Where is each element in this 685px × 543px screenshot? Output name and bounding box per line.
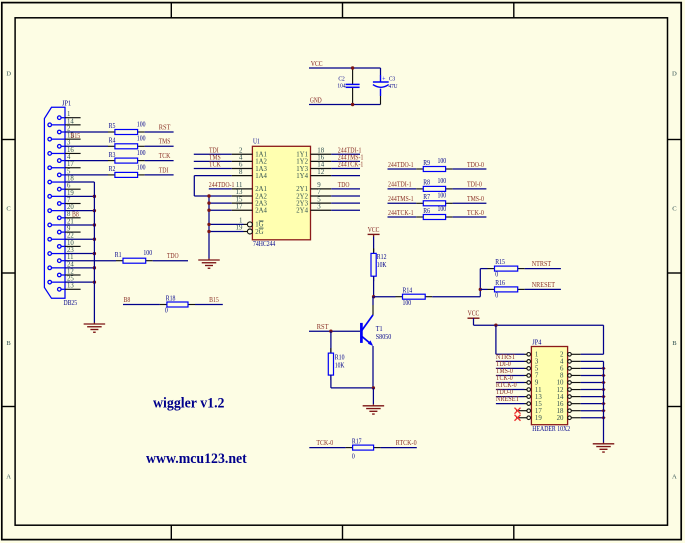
svg-text:7: 7 [535,373,539,380]
svg-text:1A4: 1A4 [255,173,267,180]
svg-text:B15: B15 [71,132,81,140]
svg-text:11: 11 [236,182,243,189]
svg-text:12: 12 [557,387,564,394]
svg-text:100: 100 [438,157,447,165]
svg-text:R9: R9 [423,159,430,167]
svg-text:TDO: TDO [338,181,350,189]
svg-text:244TMS-1: 244TMS-1 [388,195,414,203]
svg-text:8: 8 [560,373,564,380]
svg-text:2A4: 2A4 [255,208,267,215]
svg-text:22: 22 [67,233,74,240]
svg-text:2A1: 2A1 [255,186,267,193]
svg-text:C3: C3 [389,75,396,82]
svg-text:244TDI-1: 244TDI-1 [388,181,412,189]
svg-text:1: 1 [67,111,70,118]
svg-text:100: 100 [438,205,447,213]
svg-text:VCC: VCC [368,226,380,234]
svg-text:4: 4 [67,154,71,161]
svg-text:+: + [382,74,385,83]
svg-text:14: 14 [317,162,324,169]
svg-text:15: 15 [236,196,243,203]
svg-text:4: 4 [239,155,243,162]
svg-text:JP4: JP4 [532,338,542,346]
svg-text:B8: B8 [124,296,131,304]
svg-text:10: 10 [557,380,564,387]
svg-text:9: 9 [535,380,539,387]
svg-text:1: 1 [535,352,539,359]
svg-text:TDI-0: TDI-0 [467,181,482,189]
svg-text:100: 100 [137,149,146,157]
svg-text:244TCK-1: 244TCK-1 [338,161,364,169]
svg-text:10K: 10K [377,261,387,269]
svg-text:100: 100 [438,192,447,200]
svg-text:2Y3: 2Y3 [296,200,308,207]
svg-text:1Y4: 1Y4 [296,173,308,180]
svg-text:TCK: TCK [209,161,221,169]
svg-text:5: 5 [535,366,539,373]
svg-text:RST: RST [159,123,171,131]
svg-text:5: 5 [317,196,321,203]
svg-text:12: 12 [67,268,74,275]
svg-text:244TCK-1: 244TCK-1 [388,209,414,217]
svg-text:R14: R14 [403,287,413,295]
svg-text:2A2: 2A2 [255,193,267,200]
svg-text:11: 11 [67,254,74,261]
svg-text:24: 24 [67,261,74,268]
svg-text:16: 16 [67,147,74,154]
svg-text:100: 100 [137,163,146,171]
svg-text:14: 14 [67,118,74,125]
svg-text:13: 13 [535,394,542,401]
svg-text:3: 3 [67,140,71,147]
svg-text:7: 7 [317,189,321,196]
svg-text:2Y2: 2Y2 [296,193,308,200]
svg-text:B15: B15 [209,296,219,304]
svg-text:HEADER 10X2: HEADER 10X2 [532,425,570,433]
svg-text:A: A [6,473,11,480]
svg-text:4: 4 [560,359,564,366]
svg-text:100: 100 [143,249,152,257]
svg-text:1Y2: 1Y2 [296,159,308,166]
svg-text:0: 0 [495,271,498,279]
svg-text:DB25: DB25 [64,299,78,307]
svg-text:18: 18 [317,148,324,155]
svg-text:TMS-0: TMS-0 [467,195,484,203]
svg-text:19: 19 [535,415,542,422]
svg-text:1G: 1G [255,222,263,229]
svg-text:2Y1: 2Y1 [296,186,308,193]
svg-text:8: 8 [67,211,71,218]
svg-text:C2: C2 [338,75,344,82]
svg-text:A: A [672,473,677,480]
svg-text:VCC: VCC [311,60,323,68]
svg-text:15: 15 [535,401,542,408]
svg-text:6: 6 [67,183,71,190]
svg-text:244TDO-1: 244TDO-1 [388,161,414,169]
svg-text:104: 104 [337,83,346,90]
svg-text:1Y1: 1Y1 [296,152,308,159]
svg-text:TCK-0: TCK-0 [316,439,333,447]
svg-text:18: 18 [67,175,74,182]
svg-text:VCC: VCC [468,310,480,318]
svg-text:12: 12 [317,169,324,176]
svg-text:10: 10 [67,240,74,247]
svg-text:8: 8 [239,169,243,176]
svg-text:100: 100 [403,299,412,307]
svg-text:TDO-0: TDO-0 [467,161,484,169]
svg-text:B: B [672,340,677,347]
svg-text:3: 3 [317,203,321,210]
svg-text:TCK-0: TCK-0 [467,209,484,217]
svg-text:NRESET: NRESET [496,395,520,403]
svg-text:244TDO-1: 244TDO-1 [209,181,235,189]
svg-text:B8: B8 [72,210,79,218]
svg-text:1A2: 1A2 [255,159,267,166]
svg-text:R16: R16 [495,279,505,287]
svg-text:16: 16 [317,155,324,162]
svg-text:JP1: JP1 [62,99,72,107]
svg-text:20: 20 [557,415,564,422]
svg-text:R4: R4 [109,137,116,145]
svg-text:NRESET: NRESET [532,281,556,289]
svg-text:C: C [6,206,11,213]
svg-text:9: 9 [67,226,71,233]
svg-text:9: 9 [317,182,321,189]
svg-text:1A3: 1A3 [255,166,267,173]
svg-text:13: 13 [67,283,74,290]
svg-text:R3: R3 [109,151,116,159]
svg-text:B: B [6,340,11,347]
svg-text:R15: R15 [495,258,505,266]
svg-text:RTCK-0: RTCK-0 [396,439,417,447]
svg-text:R8: R8 [423,179,430,187]
svg-text:47U: 47U [389,83,398,90]
svg-text:100: 100 [137,135,146,143]
svg-text:17: 17 [67,161,74,168]
svg-text:10K: 10K [335,361,345,369]
svg-text:13: 13 [236,189,243,196]
svg-text:GND: GND [310,97,322,105]
svg-text:TDO: TDO [167,252,179,260]
svg-text:R2: R2 [109,165,116,173]
svg-text:18: 18 [557,408,564,415]
svg-text:11: 11 [535,387,542,394]
svg-text:2G: 2G [255,229,263,236]
svg-text:C: C [672,206,677,213]
svg-text:19: 19 [236,225,243,232]
svg-text:www.mcu123.net: www.mcu123.net [146,451,247,467]
svg-text:2Y4: 2Y4 [296,208,308,215]
svg-text:1: 1 [239,218,243,225]
svg-text:6: 6 [560,366,564,373]
svg-text:R1: R1 [115,251,122,259]
svg-text:D: D [672,70,677,77]
svg-text:D: D [6,70,11,77]
svg-text:23: 23 [67,247,74,254]
svg-text:25: 25 [67,276,74,283]
svg-text:100: 100 [438,177,447,185]
svg-text:0: 0 [495,291,498,299]
svg-text:R17: R17 [352,437,362,445]
svg-text:R5: R5 [109,122,116,130]
svg-text:5: 5 [67,168,71,175]
svg-text:U1: U1 [253,137,260,145]
svg-text:R6: R6 [423,207,430,215]
svg-text:1Y3: 1Y3 [296,166,308,173]
svg-text:74HC244: 74HC244 [253,240,276,248]
svg-text:NTRST: NTRST [532,260,552,268]
svg-text:16: 16 [557,401,564,408]
svg-text:7: 7 [67,197,71,204]
svg-text:0: 0 [352,452,355,460]
svg-text:wiggler v1.2: wiggler v1.2 [153,396,225,412]
svg-text:2: 2 [239,148,243,155]
svg-text:R18: R18 [166,294,176,302]
svg-text:TMS: TMS [159,138,171,146]
svg-text:2: 2 [560,352,564,359]
svg-text:100: 100 [137,120,146,128]
svg-text:2A3: 2A3 [255,200,267,207]
svg-text:6: 6 [239,162,243,169]
svg-text:19: 19 [67,190,74,197]
svg-text:R7: R7 [423,193,430,201]
svg-text:17: 17 [236,203,243,210]
svg-text:S8050: S8050 [376,333,392,341]
svg-text:TDI: TDI [159,166,169,174]
svg-text:21: 21 [67,218,74,225]
svg-text:0: 0 [165,307,168,315]
svg-text:TCK: TCK [159,152,171,160]
svg-text:RST: RST [317,323,329,331]
svg-text:17: 17 [535,408,542,415]
svg-text:14: 14 [557,394,564,401]
svg-text:1A1: 1A1 [255,152,267,159]
svg-text:3: 3 [535,359,539,366]
